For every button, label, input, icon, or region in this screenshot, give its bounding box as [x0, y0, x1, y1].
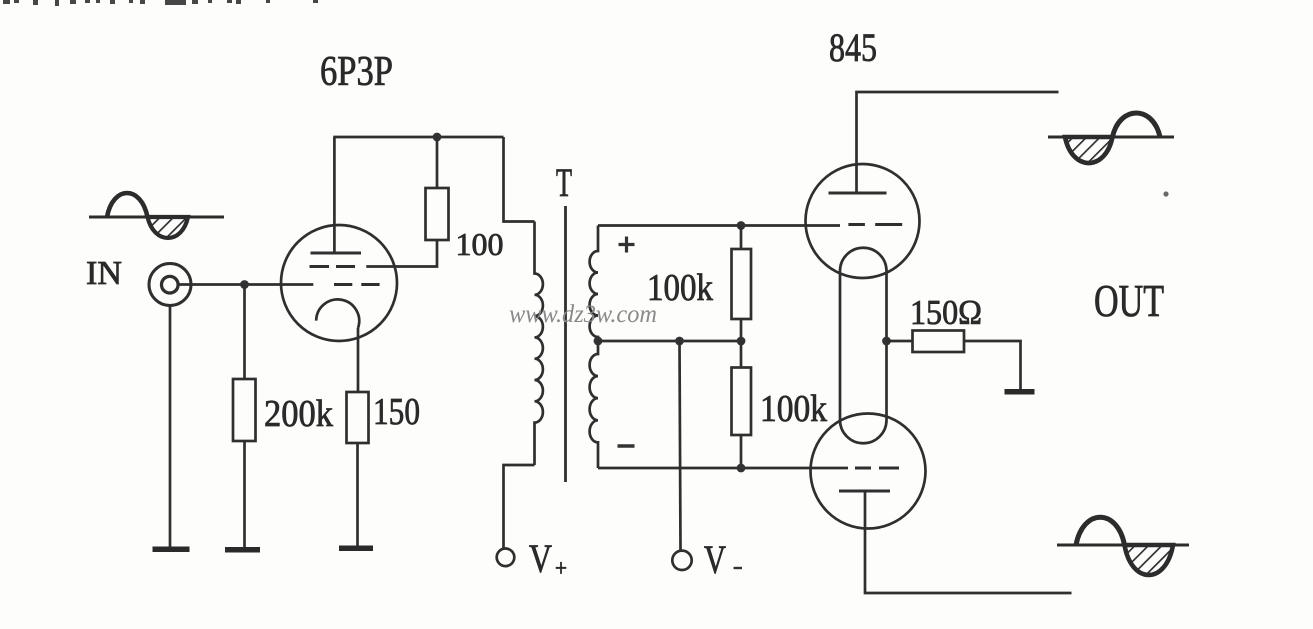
wire input jack to grid	[178, 283, 313, 286]
tube V3 845 lower envelope	[811, 414, 926, 529]
V1 screen grid (dashed)	[310, 265, 359, 268]
svg-text:150: 150	[373, 391, 420, 433]
resistor 100k upper	[732, 249, 752, 319]
wire top node bus	[333, 136, 503, 139]
terminal V+	[497, 549, 515, 567]
ground (150 ohm)	[1005, 389, 1035, 395]
node secondary centre tap	[594, 337, 603, 346]
svg-text:6P3P: 6P3P	[320, 49, 393, 95]
wire 150 to ground	[356, 443, 359, 546]
wire to V- terminal	[680, 341, 681, 551]
svg-text:845: 845	[829, 25, 877, 70]
svg-text:T: T	[556, 160, 572, 205]
transformer secondary winding	[590, 226, 598, 469]
secondary - polarity mark	[618, 444, 635, 447]
node filament junction	[882, 337, 891, 346]
svg-text:+: +	[555, 556, 567, 582]
secondary + polarity mark	[619, 237, 635, 253]
wire 150 ohm to ground	[964, 341, 1021, 389]
tube V1 6P3P envelope	[281, 225, 397, 341]
svg-text:100k: 100k	[760, 388, 827, 430]
node grid bus upper	[737, 221, 746, 230]
resistor 150	[347, 392, 369, 443]
terminal V-	[672, 551, 691, 570]
V2 grid (dashed)	[848, 223, 902, 226]
wire V1 plate to top node	[333, 137, 336, 253]
output waveform top	[1048, 113, 1174, 163]
V3 grid (dashed)	[855, 467, 899, 470]
node tap junction	[737, 337, 746, 346]
V1 cathode	[316, 299, 359, 328]
node input junction	[240, 280, 249, 289]
ground (input jack)	[153, 547, 190, 553]
ground (200k)	[225, 547, 260, 553]
svg-text:www.dz3w.com: www.dz3w.com	[509, 301, 657, 328]
wire 100k upper to tap node	[740, 319, 743, 341]
resistor 100k lower	[732, 368, 752, 436]
V1 plate	[311, 252, 362, 255]
svg-text:V: V	[529, 536, 552, 581]
wire 200k to ground	[243, 441, 246, 548]
svg-text:OUT: OUT	[1094, 276, 1164, 326]
tube V2 845 upper envelope	[806, 164, 920, 278]
wire 100k lower to bottom bus	[740, 435, 743, 468]
wire top node to transformer primary	[504, 137, 535, 222]
svg-text:V: V	[704, 537, 726, 582]
scan speck	[1163, 191, 1168, 196]
wire centre tap bus	[598, 340, 741, 343]
svg-text:100: 100	[456, 226, 504, 262]
input signal waveform	[89, 193, 224, 238]
node bottom bus	[737, 464, 746, 473]
svg-text:200k: 200k	[264, 393, 333, 435]
V1 control grid (dashed)	[334, 283, 380, 286]
wire V1 cathode to 150	[357, 328, 360, 392]
wire primary to V+ terminal	[504, 465, 535, 548]
resistor 100	[426, 188, 449, 240]
output waveform bottom	[1057, 517, 1189, 575]
transformer T primary winding	[535, 222, 543, 466]
cropped caption text fragments (top edge)	[3, 0, 318, 6]
wire V3 plate to output (bottom)	[865, 491, 1072, 593]
V2 plate	[829, 192, 887, 195]
ground (150)	[339, 546, 373, 552]
wire node to 100k upper	[740, 226, 743, 250]
node plate junction	[433, 133, 442, 142]
transformer core	[564, 206, 567, 482]
input connector J1	[149, 264, 191, 306]
resistor 150 ohm	[913, 331, 965, 353]
node V- branch	[675, 337, 684, 346]
svg-text:150Ω: 150Ω	[910, 293, 982, 332]
resistor 200k	[233, 379, 256, 441]
wire input jack to ground	[169, 306, 172, 548]
wire secondary top to V2 grid	[598, 224, 840, 227]
wire 100 to screen grid	[366, 240, 437, 267]
V2/V3 filament capsule	[840, 248, 887, 444]
wire filament to 150 ohm	[887, 340, 913, 343]
V3 plate	[839, 490, 890, 493]
wire tap node to 100k lower	[740, 341, 743, 368]
wire node to 100	[436, 137, 439, 188]
svg-text:IN: IN	[86, 255, 122, 292]
wire junction to 200k	[243, 285, 246, 380]
wire secondary bottom to V3 grid	[598, 467, 848, 470]
wire V2 plate to output (top)	[857, 92, 1059, 193]
